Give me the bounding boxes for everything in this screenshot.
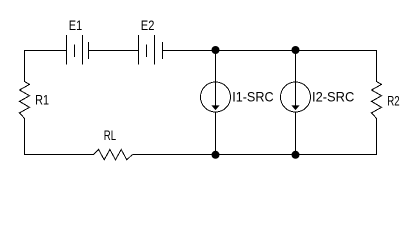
wire top rail left segment bbox=[24, 50, 67, 52]
svg-text:RL: RL bbox=[104, 127, 116, 143]
wire right vertical lower bbox=[376, 118, 378, 155]
svg-text:I2-SRC: I2-SRC bbox=[312, 89, 354, 105]
svg-text:R1: R1 bbox=[35, 92, 49, 108]
svg-text:E1: E1 bbox=[69, 17, 83, 33]
battery E2 bbox=[139, 35, 163, 65]
wire left vertical lower bbox=[24, 118, 26, 155]
junction dot bottom I1 node bbox=[212, 151, 220, 159]
svg-text:E2: E2 bbox=[141, 17, 155, 33]
junction dot top I1 node bbox=[212, 46, 220, 54]
battery E1 bbox=[67, 35, 89, 65]
current source I2 bbox=[281, 82, 311, 112]
junction dot bottom I2 node bbox=[292, 151, 300, 159]
junction dot top I2 node bbox=[292, 46, 300, 54]
wire I2 bottom lead bbox=[295, 112, 297, 156]
wire I1 top lead bbox=[215, 50, 217, 83]
wire I2 top lead bbox=[295, 50, 297, 83]
wire top rail middle segment bbox=[89, 50, 139, 52]
wire left vertical upper bbox=[24, 50, 26, 82]
svg-text:I1-SRC: I1-SRC bbox=[232, 89, 273, 105]
wire bottom rail right segment bbox=[132, 154, 377, 156]
wire right vertical upper bbox=[376, 50, 378, 82]
wire bottom rail left segment bbox=[24, 154, 94, 156]
resistor R2 bbox=[372, 82, 382, 119]
resistor RL bbox=[94, 150, 133, 160]
wire top rail right segment bbox=[163, 50, 378, 52]
current source I1 bbox=[201, 82, 231, 112]
svg-text:R2: R2 bbox=[387, 92, 400, 108]
resistor R1 bbox=[20, 82, 30, 119]
wire I1 bottom lead bbox=[215, 112, 217, 156]
